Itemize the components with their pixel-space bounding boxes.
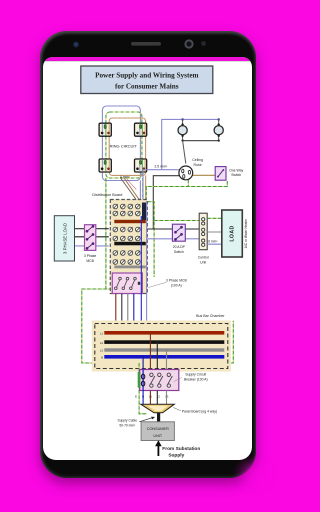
svg-text:LOAD: LOAD — [230, 225, 236, 241]
svg-text:Breaker (100 A): Breaker (100 A) — [184, 377, 208, 381]
svg-text:Panel Board (eg 4 way): Panel Board (eg 4 way) — [182, 410, 217, 414]
svg-text:One Way: One Way — [229, 168, 243, 172]
svg-text:From Substation: From Substation — [162, 446, 200, 452]
svg-text:Supply Cable: Supply Cable — [118, 418, 138, 422]
svg-text:Bus Bar Chamber: Bus Bar Chamber — [196, 314, 225, 318]
svg-text:Supply: Supply — [169, 453, 185, 459]
svg-text:Supply Circuit: Supply Circuit — [186, 372, 207, 376]
svg-text:A/C or Water Heater: A/C or Water Heater — [244, 218, 248, 249]
svg-text:L2: L2 — [100, 341, 104, 345]
svg-text:L3: L3 — [100, 349, 104, 353]
svg-text:CONSUMER: CONSUMER — [147, 427, 169, 431]
svg-text:Distribution Board: Distribution Board — [92, 193, 122, 197]
svg-text:N: N — [101, 355, 103, 359]
svg-text:Switch: Switch — [174, 250, 184, 254]
svg-text:for Consumer Mains: for Consumer Mains — [115, 83, 179, 91]
svg-text:Control: Control — [198, 256, 209, 260]
svg-text:E: E — [135, 394, 137, 398]
svg-text:RING CIRCUIT: RING CIRCUIT — [110, 144, 138, 149]
svg-text:(100 A): (100 A) — [171, 283, 182, 287]
svg-text:UNIT: UNIT — [154, 434, 164, 438]
svg-text:3 Phase MCB: 3 Phase MCB — [166, 278, 188, 282]
svg-text:3 Phase: 3 Phase — [84, 254, 97, 258]
svg-text:4 mm²: 4 mm² — [120, 175, 131, 179]
svg-text:Unit: Unit — [200, 260, 206, 264]
svg-text:Power Supply and Wiring System: Power Supply and Wiring System — [95, 72, 198, 80]
svg-text:Ceiling: Ceiling — [192, 158, 203, 162]
svg-text:3 PHASE LOAD: 3 PHASE LOAD — [63, 223, 68, 254]
svg-text:L1: L1 — [100, 331, 104, 335]
svg-text:Rose: Rose — [194, 163, 202, 167]
svg-text:2.5 mm²: 2.5 mm² — [155, 164, 169, 168]
svg-text:Switch: Switch — [231, 173, 241, 177]
svg-text:MCB: MCB — [87, 259, 95, 263]
svg-text:50-70 mm²: 50-70 mm² — [120, 423, 137, 427]
svg-text:6 mm²: 6 mm² — [208, 239, 217, 243]
svg-text:20 A DP: 20 A DP — [173, 245, 186, 249]
